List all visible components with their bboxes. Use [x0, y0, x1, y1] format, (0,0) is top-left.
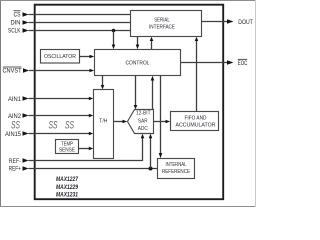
wire control to EOC	[181, 62, 228, 64]
svg-text:REF+: REF+	[9, 166, 21, 173]
wire SCLK to serial interface	[29, 30, 131, 32]
svg-text:SS: SS	[49, 119, 58, 131]
svg-text:CNVST: CNVST	[3, 68, 22, 75]
block: FIFO AND ACCUMULATOR	[171, 112, 219, 131]
part number labels MAX1227 / MAX1229 / MAX1231	[56, 177, 79, 198]
wire REF+ to internal reference	[29, 168, 158, 170]
block: 12-BIT SAR ADC (pentagon)	[128, 110, 154, 134]
svg-text:AIN1: AIN1	[8, 96, 21, 103]
pin DOUT output	[227, 19, 253, 26]
wire control to ADC (down arrow)	[134, 76, 138, 110]
svg-text:AIN15: AIN15	[5, 131, 21, 138]
wire REF+ branch up to ADC bottom	[149, 134, 153, 169]
block: OSCILLATOR	[41, 50, 80, 64]
block: TEMP SENSE	[56, 140, 79, 154]
wire control to T/H (down arrow)	[101, 76, 105, 90]
wire AIN2 to T/H	[29, 114, 94, 118]
svg-text:SAR: SAR	[138, 118, 148, 124]
svg-text:DOUT: DOUT	[238, 19, 253, 26]
wire FIFO to serial interface (up arrow)	[195, 37, 199, 112]
block: SERIAL INTERFACE	[131, 11, 202, 37]
wire ADC to control (up arrow)	[151, 76, 155, 110]
wire serial interface to control (down arrow)	[136, 37, 140, 50]
block: T/H	[94, 90, 114, 159]
pin SCLK input	[8, 28, 29, 35]
svg-text:FIFO AND: FIFO AND	[185, 116, 207, 122]
block: INTERNAL REFERENCE	[158, 159, 195, 179]
block: CONTROL	[95, 50, 181, 76]
wire T/H to ADC	[114, 120, 128, 124]
svg-text:MAX1229: MAX1229	[56, 185, 79, 191]
svg-text:DIN: DIN	[11, 20, 21, 27]
pin AIN2 input	[8, 113, 29, 120]
svg-text:INTERFACE: INTERFACE	[149, 24, 175, 30]
junction on REF+ wire	[149, 167, 153, 171]
wire REF- to ADC bottom	[29, 134, 145, 161]
wire DIN to serial interface	[29, 22, 131, 24]
junction on SCLK wire	[112, 29, 116, 33]
svg-text:SERIAL: SERIAL	[154, 18, 170, 24]
wire serial interface to DOUT	[202, 21, 228, 23]
pin REF- input	[9, 158, 29, 165]
svg-text:OSCILLATOR: OSCILLATOR	[44, 54, 76, 60]
svg-text:REFERENCE: REFERENCE	[162, 169, 190, 175]
wire control to internal reference (down arrow)	[159, 76, 163, 159]
wire CS to serial interface	[29, 14, 131, 16]
svg-text:SS: SS	[65, 119, 74, 131]
wire SCLK branch down to control	[112, 31, 116, 50]
wire ADC to FIFO	[154, 120, 171, 124]
pin AIN15 input	[5, 131, 29, 138]
svg-text:SCLK: SCLK	[8, 28, 21, 35]
svg-text:T/H: T/H	[99, 118, 107, 124]
pin AIN1 input	[8, 96, 29, 103]
svg-text:12-BIT: 12-BIT	[136, 111, 151, 117]
svg-text:MAX1231: MAX1231	[56, 193, 79, 199]
wire temp sense to T/H	[79, 147, 94, 151]
pin CNVST input	[3, 67, 30, 75]
svg-text:INTERNAL: INTERNAL	[166, 162, 187, 168]
svg-text:CS: CS	[14, 11, 21, 18]
wire AIN15 to T/H	[29, 132, 94, 136]
svg-text:TEMP: TEMP	[61, 141, 73, 147]
outer IC boundary box	[35, 5, 224, 200]
wire oscillator to control	[80, 55, 95, 59]
svg-text:ADC: ADC	[138, 126, 148, 132]
pin CS input	[14, 11, 29, 19]
svg-text:SENSE: SENSE	[59, 148, 75, 154]
pin REF+ input	[9, 166, 29, 173]
pin EOC output	[227, 59, 247, 67]
wire CNVST to control	[29, 69, 94, 73]
svg-text:ACCUMULATOR: ACCUMULATOR	[176, 122, 216, 128]
svg-text:EOC: EOC	[238, 60, 248, 67]
wire AIN1 to T/H	[29, 97, 94, 101]
svg-text:SS: SS	[11, 119, 20, 131]
page border	[0, 0, 256, 207]
svg-text:MAX1227: MAX1227	[56, 177, 79, 183]
wire control to serial interface (up arrow)	[150, 37, 154, 50]
pin DIN input	[11, 20, 29, 27]
svg-text:REF-: REF-	[9, 158, 21, 165]
svg-text:CONTROL: CONTROL	[126, 60, 150, 66]
